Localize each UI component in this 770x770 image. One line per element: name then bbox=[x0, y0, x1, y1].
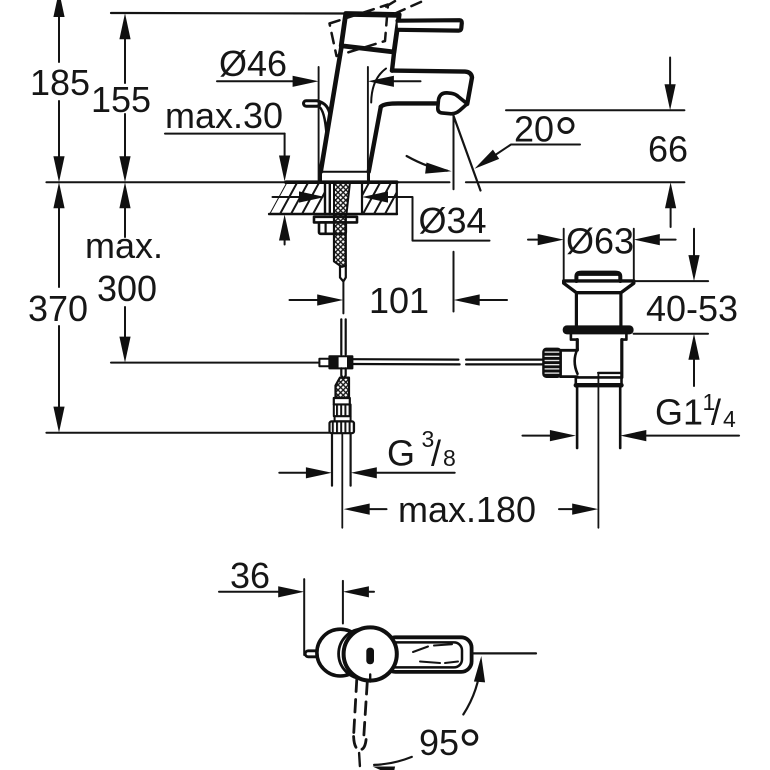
svg-text:4: 4 bbox=[723, 406, 736, 432]
pop-up pull rod knob at rear of body bbox=[304, 101, 331, 135]
svg-text:66: 66 bbox=[648, 129, 688, 170]
body/arm intersection thin curve bbox=[371, 69, 386, 103]
deck slab bottom edge bbox=[269, 213, 397, 216]
svg-text:/: / bbox=[711, 392, 721, 433]
knurled rod nut on drain bbox=[543, 349, 560, 377]
svg-text:max.180: max.180 bbox=[398, 489, 536, 530]
deck hatching left block bbox=[257, 182, 330, 214]
aerator (spout outlet) bbox=[438, 93, 467, 114]
svg-text:8: 8 bbox=[443, 445, 456, 471]
svg-text:101: 101 bbox=[369, 280, 429, 321]
hose connector collar bbox=[334, 398, 350, 405]
water stream line 20deg bbox=[453, 113, 481, 191]
handle lever (solid, horizontal) bbox=[398, 20, 462, 30]
drain valve body bbox=[576, 340, 579, 350]
20deg leader bbox=[480, 145, 581, 166]
step below seal bbox=[571, 334, 627, 339]
rod right segment bbox=[466, 359, 543, 361]
G3/8 thread tails bbox=[331, 433, 333, 485]
braided hose end bbox=[336, 378, 350, 398]
supply hose centerline upper bbox=[342, 282, 344, 314]
internal line in valve body bbox=[598, 372, 621, 374]
pull rod tube through deck bbox=[324, 182, 326, 214]
drain push cap bbox=[576, 273, 620, 281]
handle dome back rim arc bbox=[339, 629, 389, 679]
svg-text:300: 300 bbox=[97, 268, 157, 309]
svg-text:36: 36 bbox=[230, 555, 270, 596]
faucet body column bbox=[321, 47, 472, 182]
supply hose double wall lower bbox=[340, 319, 342, 354]
lever reference line (0 deg) bbox=[472, 652, 536, 654]
svg-text:Ø46: Ø46 bbox=[219, 43, 287, 84]
stub below T bbox=[341, 368, 345, 378]
tailpipe bbox=[576, 387, 579, 448]
hose end nut (knurled) bbox=[330, 421, 355, 433]
svg-text:370: 370 bbox=[28, 288, 88, 329]
bottom collar bbox=[576, 377, 622, 386]
deck reference line (counter top level) bbox=[46, 181, 449, 183]
lever surface dashes bbox=[413, 644, 458, 663]
svg-text:G1: G1 bbox=[655, 392, 703, 433]
dashed lever swung position bbox=[354, 679, 368, 735]
side outlet to rod bbox=[561, 350, 578, 376]
drain neck bbox=[575, 293, 578, 326]
threaded shank below deck (braided) bbox=[334, 214, 346, 267]
svg-text:/: / bbox=[431, 433, 441, 474]
dashed alternate handle head (tilted position) bbox=[330, 1, 425, 57]
lever top face inner outline bbox=[386, 642, 462, 667]
svg-text:20: 20 bbox=[514, 109, 554, 150]
dimension max.300 line bbox=[124, 208, 126, 337]
spout arm bottom edge with fillet into body bbox=[381, 103, 436, 106]
dimension 185 line bbox=[58, 10, 60, 157]
deck right edge bbox=[396, 182, 398, 214]
svg-text:185: 185 bbox=[30, 62, 90, 103]
svg-text:155: 155 bbox=[91, 79, 151, 120]
deck slab thick top edge bbox=[286, 180, 397, 184]
T-junction block bbox=[329, 356, 352, 368]
bottom tick on cap bbox=[369, 675, 371, 682]
handle cap circle (front) bbox=[344, 627, 397, 680]
svg-text:95: 95 bbox=[419, 722, 459, 763]
dimension 370 line bbox=[58, 208, 60, 407]
T-junction left stub bbox=[319, 359, 329, 367]
dimension 155 line bbox=[124, 39, 126, 157]
body circle (top view) bbox=[317, 629, 364, 676]
svg-text:Ø63: Ø63 bbox=[566, 221, 634, 262]
svg-text:Ø34: Ø34 bbox=[419, 200, 487, 241]
extension line rod tip bbox=[303, 579, 305, 655]
svg-text:G: G bbox=[387, 433, 415, 474]
hose end reference line bbox=[46, 432, 329, 434]
top reference line (handle top level) bbox=[111, 12, 346, 15]
95deg swing arc bbox=[463, 662, 481, 715]
mounting hole right edge bbox=[361, 182, 363, 214]
threaded shank through deck (braided) bbox=[334, 182, 350, 214]
washer flange under deck bbox=[314, 217, 357, 223]
drain centerline bbox=[597, 374, 599, 528]
outlet/body intersection curve bbox=[575, 349, 578, 374]
outlet extension line bbox=[453, 116, 455, 190]
extension line body edge bbox=[342, 581, 344, 624]
hose centerline lower bbox=[341, 433, 343, 527]
rod level reference line bbox=[111, 362, 319, 364]
rod left segment bbox=[352, 358, 458, 361]
mounting nut bbox=[319, 222, 346, 233]
base bottom and small verticals to counter bbox=[321, 171, 369, 173]
rubber seal ring (black) bbox=[563, 325, 634, 334]
valve body bottom bbox=[577, 376, 622, 379]
angle arc bbox=[407, 156, 447, 171]
hose connector knurled sleeve bbox=[334, 405, 351, 417]
pull rod pin (top view) bbox=[305, 651, 327, 657]
lever arm (top view) bbox=[385, 637, 472, 672]
drain flange bbox=[564, 281, 634, 293]
set screw slot bbox=[366, 648, 374, 665]
hose tail below shank bbox=[340, 266, 346, 281]
svg-text:max.30: max.30 bbox=[165, 95, 283, 136]
svg-text:40-53: 40-53 bbox=[646, 288, 738, 329]
spout arm top edge bbox=[392, 71, 472, 104]
handle head (solid) bbox=[341, 14, 399, 53]
deck hatching right block bbox=[352, 182, 402, 214]
svg-text:max.: max. bbox=[85, 225, 163, 266]
